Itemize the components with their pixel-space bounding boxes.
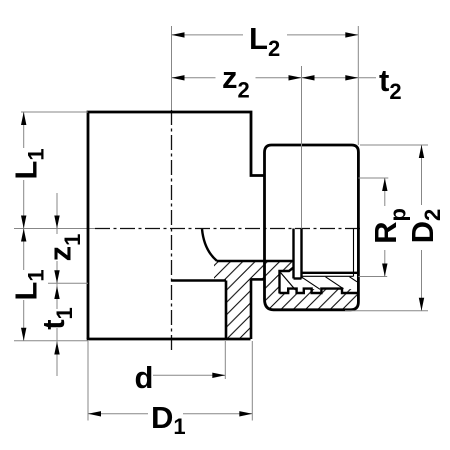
- dim t1 line: [56, 283, 58, 309]
- dim D1 line: [88, 413, 148, 415]
- dim d line: [153, 374, 225, 376]
- extension line: socket shoulder: [48, 282, 88, 284]
- extension line: z2 end (thread end): [301, 66, 303, 229]
- socket bore right wall: [225, 281, 228, 340]
- svg-text:z1: z1: [43, 234, 86, 262]
- dim d arrow: [212, 373, 225, 378]
- dim L1 upper line: [23, 112, 25, 148]
- hatched section: flange bottom / threaded insert: [265, 261, 358, 309]
- dim t2 arrows: [302, 75, 315, 80]
- bore fillet curve: [202, 229, 217, 261]
- dim D2 arrows: [419, 145, 424, 158]
- extension line: bore wall for d: [224, 341, 226, 379]
- dim L1 lower line: [23, 229, 25, 271]
- dim z1 line: [56, 193, 58, 234]
- svg-text:t2: t2: [379, 63, 402, 104]
- extension lines Rp: [358, 177, 388, 179]
- svg-text:t1: t1: [36, 307, 77, 330]
- dim D1 arrows: [88, 411, 101, 416]
- svg-text:D2: D2: [405, 209, 445, 244]
- pipe-stop slot left wall: [292, 229, 294, 279]
- dim L1 upper arrows: [21, 112, 26, 125]
- thread end thin line: [353, 229, 355, 277]
- svg-text:d: d: [135, 360, 154, 395]
- dim L1 lower arrows: [21, 229, 26, 242]
- pipe-stop slot right wall: [300, 229, 302, 279]
- dim L2 arrows: [172, 32, 185, 37]
- dim Rp arrows: [382, 178, 387, 191]
- dim Rp line: [384, 178, 386, 206]
- body bottom edge: [87, 338, 251, 341]
- svg-text:L1: L1: [9, 269, 49, 300]
- svg-text:L1: L1: [9, 148, 49, 179]
- insert left contour: [280, 268, 294, 294]
- extension line: body bottom: [14, 340, 88, 342]
- chamfer diagonal: [281, 273, 296, 291]
- dim t1 arrows: [54, 286, 59, 299]
- svg-text:L2: L2: [249, 21, 280, 61]
- thread bore line (minor dia, thick): [302, 272, 358, 274]
- body outline: [88, 112, 265, 339]
- svg-text:D1: D1: [151, 400, 186, 439]
- svg-text:z2: z2: [222, 60, 250, 103]
- flange outline: [265, 145, 359, 310]
- dim z1 arrows: [54, 216, 59, 229]
- extension line: vertical centerline top is shared; right end of L2: [357, 26, 359, 145]
- white insert chamfer region: [280, 268, 304, 294]
- flange underside left: [251, 278, 265, 281]
- dim L2 line: [172, 34, 244, 36]
- vertical centerline (socket axis): [171, 26, 173, 110]
- dim z2 arrows: [172, 75, 185, 80]
- dim z2 line: [172, 77, 216, 79]
- hatched section: body wall and socket column: [214, 261, 264, 339]
- dim D2 line: [421, 145, 423, 205]
- horizontal bore bottom line: [217, 260, 294, 262]
- horizontal centerline (pipe axis): [14, 228, 95, 230]
- extension line: body top: [21, 111, 88, 113]
- extension lines D1: [87, 341, 89, 421]
- extension lines D2: [360, 144, 428, 146]
- pipe-stop slot bottom: [294, 277, 302, 279]
- insert knurl castellated line: [280, 289, 358, 293]
- dim t2 line: [302, 77, 377, 79]
- thread flank lines: [302, 277, 357, 290]
- section edge of socket wall: [250, 279, 253, 339]
- thread crest line (thin): [302, 275, 354, 277]
- socket shoulder: [171, 279, 226, 282]
